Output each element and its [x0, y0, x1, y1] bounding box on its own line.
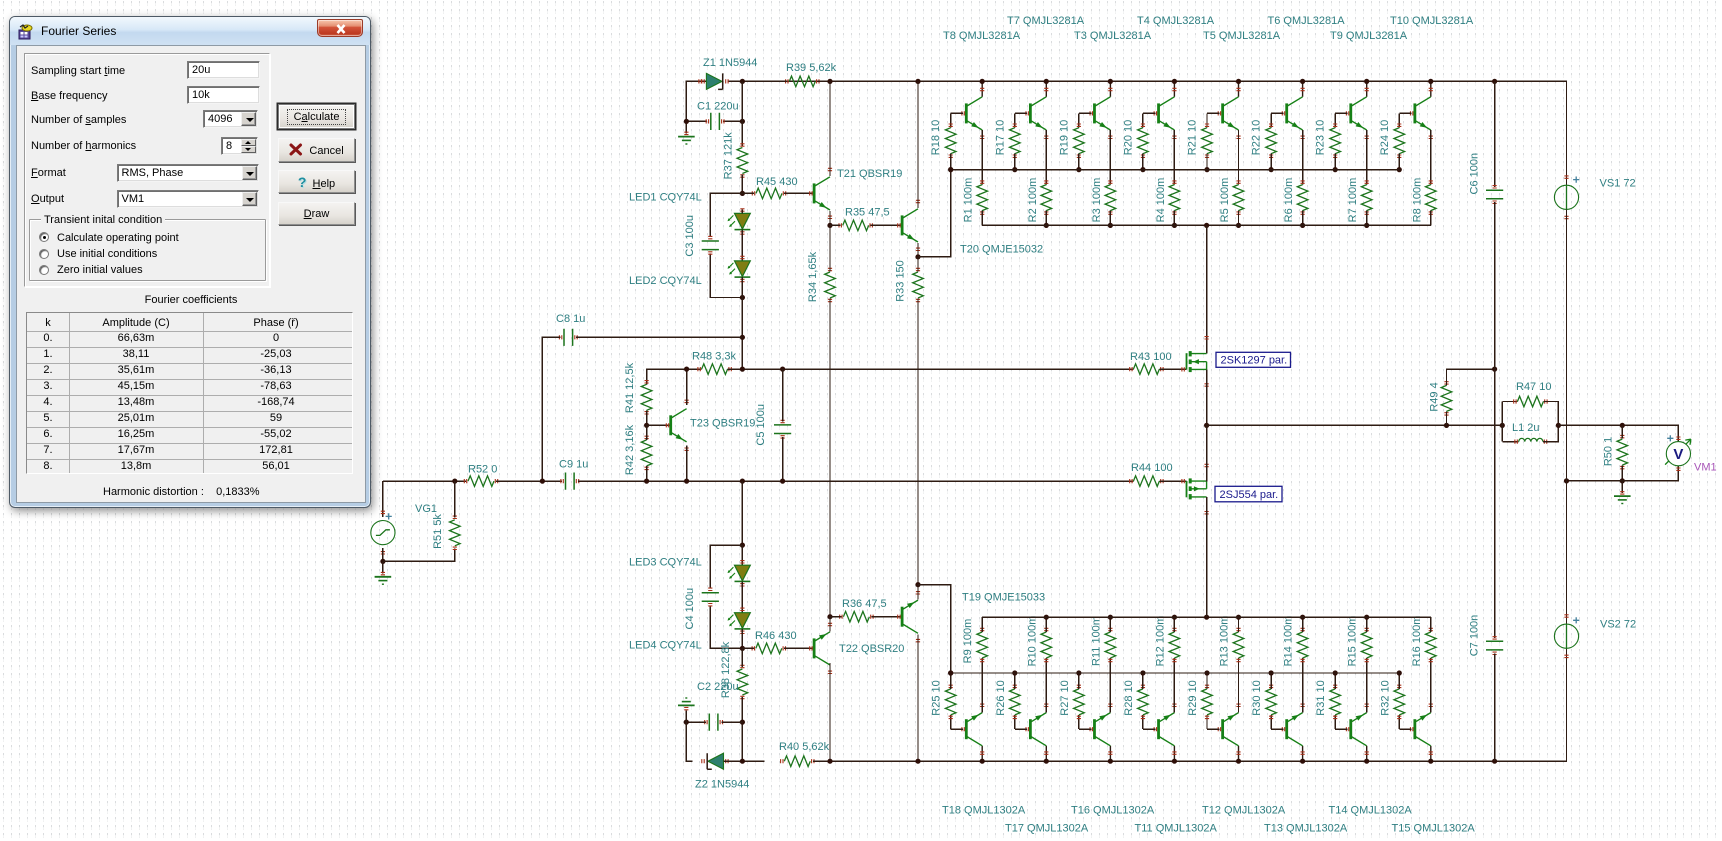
junction rail leg 1 — [980, 79, 985, 84]
svg-text:T4 QMJL3281A: T4 QMJL3281A — [1137, 15, 1215, 27]
junction R47/L1 left — [1500, 423, 1505, 428]
wire: Z1 node down to R37 — [741, 81, 743, 146]
svg-text:T19 QMJE15033: T19 QMJE15033 — [962, 592, 1045, 604]
wire: R37 to LED node — [741, 175, 743, 194]
junction R48 right — [740, 367, 745, 372]
svg-text:R39 5,62k: R39 5,62k — [786, 62, 837, 74]
wire: base top leg 6 — [1271, 112, 1283, 114]
wire: base top leg 7 — [1335, 112, 1347, 114]
resistor R15 100m (emitter, bottom leg 7) — [1361, 632, 1372, 658]
inductor L1 2u — [1519, 438, 1543, 441]
svg-text:T13 QMJL1302A: T13 QMJL1302A — [1264, 823, 1348, 835]
junction base bus bottom leg 3 — [1076, 670, 1081, 675]
ground (VG1) — [375, 577, 392, 584]
junction top rail / T20 collector — [915, 79, 920, 84]
wire: base top leg 3 — [1079, 112, 1091, 114]
junction emitter bus leg 3 — [1108, 223, 1113, 228]
wire: bottom emitter bus — [982, 616, 1431, 618]
svg-text:T14 QMJL1302A: T14 QMJL1302A — [1329, 804, 1413, 816]
resistor R41 12,5k — [641, 384, 652, 410]
wire: R38 to bottom rail — [741, 697, 743, 761]
resistor R49 4 — [1441, 385, 1452, 411]
junction top rail / T21 collector — [827, 79, 832, 84]
wire: C2 right lead — [721, 721, 742, 723]
wire: R34 down to R36 node — [829, 299, 831, 617]
resistor R7 100m (emitter, top leg 7) — [1361, 185, 1372, 211]
svg-text:R47 10: R47 10 — [1516, 381, 1551, 393]
svg-text:C4 100u: C4 100u — [684, 588, 696, 630]
svg-text:R6 100m: R6 100m — [1283, 178, 1295, 223]
wire: C2 node to Z2 — [686, 722, 691, 761]
junction rail leg 4 — [1172, 79, 1177, 84]
capacitor C6 100n — [1486, 190, 1503, 199]
junction — [684, 119, 689, 124]
resistor R9 100m (emitter, bottom leg 1) — [977, 632, 988, 658]
wire: C1 ground stem — [685, 121, 687, 133]
wire: emitter res to bus leg 7 — [1366, 211, 1368, 226]
junction output node — [1204, 423, 1209, 428]
resistor R50 1 — [1617, 439, 1628, 465]
wire: ground stem R50 — [1621, 481, 1623, 493]
LED4 CQY74L — [728, 613, 751, 629]
wire: collector leg bottom 3 — [1109, 746, 1111, 761]
wire: N-FET source to output node — [1206, 369, 1208, 425]
wire: R42 top — [646, 425, 648, 440]
LED1 CQY74L — [728, 213, 751, 229]
junction C6 column / R49 — [1492, 367, 1497, 372]
svg-text:C3 100u: C3 100u — [684, 215, 696, 257]
wire: emitter res to bus leg 6 — [1302, 211, 1304, 226]
junction T23 base node — [644, 423, 649, 428]
wire: emitter to R bottom leg 6 — [1302, 658, 1304, 713]
transistor output top leg 4 QMJL3281A — [1159, 97, 1175, 130]
wire: collector leg bottom 1 — [981, 746, 983, 761]
svg-text:T16 QMJL1302A: T16 QMJL1302A — [1071, 804, 1155, 816]
svg-text:C8 1u: C8 1u — [556, 313, 585, 325]
wire: output column to N-FET drain — [1206, 225, 1208, 353]
wire: emitter res to bus leg 2 — [1045, 211, 1047, 226]
wire: collector leg bottom 7 — [1366, 746, 1368, 761]
wire: emitter to R bottom leg 8 — [1430, 658, 1432, 713]
transistor T21 QBSR19 — [814, 177, 830, 210]
junction rail leg 5 — [1236, 79, 1241, 84]
resistor R34 1,65k — [825, 272, 836, 298]
wire: R47 right lead — [1543, 402, 1558, 426]
svg-text:R22 10: R22 10 — [1251, 120, 1263, 155]
wire: base res top lead leg 1 — [950, 113, 952, 127]
resistor R46 430 — [756, 643, 782, 654]
svg-text:Z1 1N5944: Z1 1N5944 — [703, 57, 757, 69]
voltmeter VM1 — [1665, 439, 1691, 464]
wire: emitter res to bus bottom leg 3 — [1109, 617, 1111, 632]
wire: C5 bottom lead — [782, 437, 784, 481]
ground (C1) — [678, 137, 695, 144]
svg-text:R8 100m: R8 100m — [1411, 178, 1423, 223]
wire: T20 collector — [917, 81, 919, 208]
wire: R39 to T21 node — [818, 80, 830, 82]
wire: collector leg top 8 — [1430, 81, 1432, 96]
wire: R47 left lead — [1502, 401, 1517, 403]
resistor R14 100m (emitter, bottom leg 6) — [1297, 632, 1308, 658]
svg-text:R26 10: R26 10 — [995, 680, 1007, 715]
junction R47/L1 right — [1556, 423, 1561, 428]
svg-text:R17 10: R17 10 — [994, 120, 1006, 155]
svg-text:T18 QMJL1302A: T18 QMJL1302A — [942, 804, 1026, 816]
svg-text:R45 430: R45 430 — [756, 176, 798, 188]
wire: emitter to R leg 3 — [1109, 130, 1111, 185]
wire: emitter to R bottom leg 1 — [981, 658, 983, 713]
transistor output bottom leg 4 QMJL1302A — [1159, 713, 1175, 746]
transistor output bottom leg 1 QMJL1302A — [966, 713, 982, 746]
wire: collector leg top 2 — [1045, 81, 1047, 96]
voltage source VS2 72 — [1566, 624, 1568, 648]
junction base bus bottom leg 1 — [948, 670, 953, 675]
wire: R35 to T20 base — [871, 224, 902, 226]
svg-text:LED2 CQY74L: LED2 CQY74L — [629, 275, 702, 287]
wire: R41 to T23 base node — [646, 410, 648, 425]
MOSFET 2SK1297 (N) — [1187, 351, 1207, 372]
wire: LED1 to LED2 — [741, 230, 743, 261]
junction rail leg 7 — [1364, 79, 1369, 84]
wire: input line to R44 — [578, 480, 1134, 482]
wire: R48 left lead — [687, 368, 702, 370]
wire: node to R36 — [830, 616, 841, 618]
wire: stub LED1 — [741, 210, 743, 214]
wire: C3 top branch — [710, 193, 742, 237]
svg-text:R12 100m: R12 100m — [1154, 616, 1166, 667]
junction R48/T23 — [684, 367, 689, 372]
junction C2/ground — [684, 720, 689, 725]
wire: emitter res to bus bottom leg 2 — [1045, 617, 1047, 632]
resistor R30 10 (base, bottom leg 6) — [1266, 689, 1277, 715]
capacitor C8 1u — [564, 329, 573, 346]
voltage source VS1 72 — [1566, 185, 1568, 209]
junction rail bottom leg 5 — [1236, 759, 1241, 764]
wire: emitter res to bus bottom leg 5 — [1238, 617, 1240, 632]
svg-text:R21 10: R21 10 — [1187, 120, 1199, 155]
svg-text:R34 1,65k: R34 1,65k — [807, 251, 819, 302]
wire: output to VM1 — [1558, 425, 1678, 441]
wire: base res bottom lead leg 1 — [950, 715, 952, 729]
wire: C5 top lead — [782, 369, 784, 421]
wire: emitter res to bus bottom leg 7 — [1366, 617, 1368, 632]
wire: base res top lead leg 6 — [1270, 113, 1272, 127]
svg-text:T17 QMJL1302A: T17 QMJL1302A — [1005, 823, 1089, 835]
wire: C4 bottom branch — [710, 605, 742, 648]
junction emitter bus leg 4 — [1172, 223, 1177, 228]
svg-text:R41 12,5k: R41 12,5k — [624, 362, 636, 413]
resistor R16 100m (emitter, bottom leg 8) — [1426, 632, 1437, 658]
wire: LED4 to R46 node — [741, 629, 743, 649]
junction base bus bottom leg 6 — [1269, 670, 1274, 675]
wire: base res bottom lead leg 2 — [1014, 715, 1016, 729]
wire: base bottom leg 8 — [1399, 728, 1411, 730]
wire: ground stem C2 — [685, 710, 687, 722]
resistor R18 10 (base, top leg 1) — [945, 128, 956, 154]
wire: emitter to R bottom leg 2 — [1045, 658, 1047, 713]
wire: base res to bus bottom leg 4 — [1142, 673, 1144, 689]
wire: T23 collector — [686, 369, 688, 405]
transistor output top leg 2 QMJL3281A — [1030, 97, 1046, 130]
wire: collector leg bottom 5 — [1238, 746, 1240, 761]
resistor R33 150 — [913, 272, 924, 298]
resistor R10 100m (emitter, bottom leg 2) — [1041, 632, 1052, 658]
junction rail bottom leg 2 — [1044, 759, 1049, 764]
svg-text:R30 10: R30 10 — [1251, 680, 1263, 715]
transistor output top leg 6 QMJL3281A — [1287, 97, 1303, 130]
wire: LED2 cathode stub — [741, 277, 743, 297]
LED3 CQY74L — [728, 565, 751, 581]
wire: emitter res to bus leg 3 — [1109, 211, 1111, 226]
junction R51/R52 — [452, 479, 457, 484]
wire: VG1 to R52 — [383, 480, 466, 482]
wire: node to R45 — [742, 192, 754, 194]
junction LED3 top node — [740, 543, 745, 548]
wire: base res bottom lead leg 7 — [1334, 715, 1336, 729]
wire: emitter to R leg 4 — [1173, 130, 1175, 185]
wire: L1 left lead — [1502, 441, 1518, 443]
svg-text:C6 100n: C6 100n — [1468, 153, 1480, 195]
svg-text:T7 QMJL3281A: T7 QMJL3281A — [1007, 15, 1085, 27]
resistor R37 121k — [737, 148, 748, 174]
svg-text:R11 100m: R11 100m — [1090, 616, 1102, 666]
junction C5 top — [780, 367, 785, 372]
zener diode Z1 1N5944 — [706, 73, 722, 89]
plus VS2 — [1573, 617, 1579, 623]
wire: base res to bus bottom leg 8 — [1398, 673, 1400, 689]
capacitor C5 100u — [774, 425, 791, 434]
wire: base top leg 5 — [1207, 112, 1219, 114]
junction top rail / Z1-C1 column — [740, 79, 745, 84]
junction base bus bottom leg 8 — [1397, 670, 1402, 675]
resistor R42 3,16k — [641, 440, 652, 466]
junction emitter bus bottom leg 7 — [1364, 615, 1369, 620]
wire: emitter res to bus bottom leg 1 — [981, 617, 983, 632]
wire: collector leg top 5 — [1238, 81, 1240, 96]
svg-text:R3 100m: R3 100m — [1091, 178, 1103, 223]
junction bottom rail / R38 column — [740, 759, 745, 764]
svg-text:V: V — [1673, 446, 1683, 463]
wire: base res to bus leg 6 — [1270, 154, 1272, 170]
capacitor C2 220u — [709, 714, 718, 731]
wire: base bottom leg 6 — [1271, 728, 1283, 730]
resistor R23 10 (base, top leg 7) — [1330, 128, 1341, 154]
plus VM1 — [1667, 435, 1673, 441]
junction rail bottom leg 4 — [1172, 759, 1177, 764]
wire: base top leg 1 — [951, 112, 963, 114]
wire: R42 bottom — [646, 466, 648, 481]
wire: emitter res to bus bottom leg 8 — [1430, 617, 1432, 632]
junction T20 emitter node — [915, 254, 920, 259]
wire: gate line upper (R48/C5 to R43) — [728, 368, 1134, 370]
svg-text:R4 100m: R4 100m — [1155, 178, 1167, 223]
svg-text:R33 150: R33 150 — [895, 260, 907, 302]
wire: R49 bottom lead — [1446, 411, 1448, 425]
svg-text:LED3 CQY74L: LED3 CQY74L — [629, 556, 702, 568]
junction base bus leg 5 — [1204, 167, 1209, 172]
wire: R47/L1 left edge — [1501, 402, 1503, 442]
junction rail bottom leg 1 — [980, 759, 985, 764]
wire: T22 collector — [829, 663, 831, 761]
resistor R48 3,3k — [702, 364, 728, 375]
wire: collector leg bottom 6 — [1302, 746, 1304, 761]
svg-text:R31 10: R31 10 — [1315, 680, 1327, 715]
junction supply midpoint — [1564, 478, 1569, 483]
capacitor C3 100u — [702, 241, 719, 250]
wire: VS1 to VS2 column — [1566, 209, 1568, 624]
wire: T19 emitter to bottom base bus — [918, 585, 951, 673]
resistor R13 100m (emitter, bottom leg 5) — [1233, 632, 1244, 658]
wire: LED3 to LED4 — [741, 581, 743, 612]
wire: T23 emitter — [686, 446, 688, 481]
wire: R46 to T22 base — [784, 647, 814, 649]
resistor R21 10 (base, top leg 5) — [1202, 128, 1213, 154]
resistor R32 10 (base, bottom leg 8) — [1394, 689, 1405, 715]
junction rail leg 3 — [1108, 79, 1113, 84]
wire: ground stem VG1 — [382, 561, 384, 573]
label box 2SK1297 par. — [1216, 352, 1291, 367]
wire: base res to bus leg 2 — [1014, 154, 1016, 170]
label box 2SJ554 par. — [1215, 486, 1282, 502]
wire: C3 bottom branch — [710, 253, 742, 297]
ground (C2) — [678, 698, 695, 705]
resistor R36 47,5 — [843, 611, 869, 622]
wire: stub — [691, 760, 693, 762]
junction LED1 top node — [740, 191, 745, 196]
wire: base res to bus bottom leg 6 — [1270, 673, 1272, 689]
transistor T22 QBSR20 — [814, 632, 830, 665]
LED2 CQY74L — [728, 261, 751, 277]
resistor R28 10 (base, bottom leg 4) — [1138, 689, 1149, 715]
wire: base res to bus leg 5 — [1206, 154, 1208, 170]
junction rail leg 8 — [1428, 79, 1433, 84]
voltage generator VG1 — [371, 521, 395, 545]
wire: collector leg top 7 — [1366, 81, 1368, 96]
junction C2 right — [740, 720, 745, 725]
wire: base res bottom lead leg 4 — [1142, 715, 1144, 729]
resistor R45 430 — [756, 188, 782, 199]
junction base bus bottom leg 2 — [1012, 670, 1017, 675]
resistor R20 10 (base, top leg 4) — [1138, 128, 1149, 154]
wire: bottom base bus — [951, 672, 1400, 674]
wire: VG1 to R51 — [383, 548, 455, 561]
wire: node to R38 — [741, 648, 743, 667]
svg-text:R36 47,5: R36 47,5 — [842, 598, 887, 610]
resistor R6 100m (emitter, top leg 6) — [1297, 185, 1308, 211]
wire: bottom rail Z2 to R40 — [724, 760, 765, 762]
wire: R50 bottom lead — [1621, 466, 1623, 481]
junction base bus leg 3 — [1076, 167, 1081, 172]
junction R42 bottom — [644, 479, 649, 484]
wire: collector leg top 1 — [981, 81, 983, 96]
svg-text:R15 100m: R15 100m — [1347, 616, 1359, 667]
wire: emitter res to bus leg 1 — [981, 211, 983, 226]
junction C8 column — [540, 479, 545, 484]
wire: base res bottom lead leg 6 — [1270, 715, 1272, 729]
svg-text:R23 10: R23 10 — [1315, 120, 1327, 155]
junction emitter bus bottom leg 5 — [1236, 615, 1241, 620]
wire: base bottom leg 3 — [1079, 728, 1091, 730]
transistor output top leg 1 QMJL3281A — [966, 97, 982, 130]
svg-text:R29 10: R29 10 — [1187, 680, 1199, 715]
svg-text:R9 100m: R9 100m — [962, 619, 974, 664]
wire: R51 to input node — [454, 481, 456, 517]
svg-text:R37 121k: R37 121k — [723, 132, 735, 180]
wire: emitter to R leg 1 — [981, 130, 983, 185]
junction C8 tap — [740, 335, 745, 340]
junction base bus leg 4 — [1140, 167, 1145, 172]
junction LED4/R46/R38 — [740, 646, 745, 651]
wire: base res top lead leg 7 — [1334, 113, 1336, 127]
wire: C1 left lead — [686, 120, 707, 122]
wire: collector leg bottom 8 — [1430, 746, 1432, 761]
svg-text:T15 QMJL1302A: T15 QMJL1302A — [1392, 823, 1476, 835]
wire: to R41 — [647, 369, 687, 384]
resistor R4 100m (emitter, top leg 4) — [1169, 185, 1180, 211]
wire: base res top lead leg 4 — [1142, 113, 1144, 127]
wire: emitter to R bottom leg 5 — [1238, 658, 1240, 713]
wire: C6 top lead — [1494, 81, 1496, 186]
wire: R43 to N gate — [1159, 368, 1186, 370]
transistor T20 QMJE15032 — [902, 209, 918, 242]
svg-text:T8 QMJL3281A: T8 QMJL3281A — [943, 30, 1021, 42]
wire: base bottom leg 2 — [1015, 728, 1027, 730]
resistor R25 10 (base, bottom leg 1) — [945, 689, 956, 715]
wire: T22 emitter — [829, 617, 831, 632]
wire: emitter res to bus leg 4 — [1173, 211, 1175, 226]
wire: T20 emitter to top base bus — [918, 170, 951, 257]
wire: LED node to R48 node — [741, 298, 743, 370]
svg-text:2SK1297 par.: 2SK1297 par. — [1221, 355, 1288, 367]
wire: VG1 bottom lead — [382, 548, 384, 561]
junction rail bottom leg 7 — [1364, 759, 1369, 764]
wire: T19 emitter — [917, 585, 919, 600]
wire: collector leg top 3 — [1109, 81, 1111, 96]
junction T21 emitter node — [827, 223, 832, 228]
resistor R22 10 (base, top leg 6) — [1266, 128, 1277, 154]
junction emitter bus bottom leg 2 — [1044, 615, 1049, 620]
MOSFET 2SJ554 (P) — [1187, 478, 1207, 499]
svg-text:VS2 72: VS2 72 — [1600, 618, 1636, 630]
resistor R35 47,5 — [843, 220, 869, 231]
junction base bus leg 1 — [948, 167, 953, 172]
junction T23 emitter — [684, 479, 689, 484]
wire: T21 collector — [829, 81, 831, 176]
wire: C8 down to input node — [542, 337, 560, 481]
resistor R40 5,62k — [784, 756, 810, 767]
resistor R38 122,8k — [737, 669, 748, 695]
junction T19 emitter node — [915, 582, 920, 587]
resistor R19 10 (base, top leg 3) — [1074, 128, 1085, 154]
resistor R17 10 (base, top leg 2) — [1010, 128, 1021, 154]
svg-text:R1 100m: R1 100m — [963, 178, 975, 223]
svg-text:T21 QBSR19: T21 QBSR19 — [837, 168, 902, 180]
junction output column top — [1204, 223, 1209, 228]
svg-text:R14 100m: R14 100m — [1283, 616, 1295, 667]
junction emitter bus leg 5 — [1236, 223, 1241, 228]
wire: R44 to P gate — [1159, 480, 1186, 482]
svg-text:VS1 72: VS1 72 — [1600, 177, 1636, 189]
wire: output node to P-FET source — [1206, 425, 1208, 481]
resistor R44 100 — [1133, 476, 1159, 487]
svg-text:R13 100m: R13 100m — [1219, 616, 1231, 667]
junction rail bottom leg 3 — [1108, 759, 1113, 764]
svg-text:R16 100m: R16 100m — [1411, 616, 1423, 667]
transistor output bottom leg 8 QMJL1302A — [1415, 713, 1431, 746]
wire: R33 down to T19 emitter node — [917, 299, 919, 585]
transistor output top leg 7 QMJL3281A — [1351, 97, 1367, 130]
wire: emitter to R leg 6 — [1302, 130, 1304, 185]
